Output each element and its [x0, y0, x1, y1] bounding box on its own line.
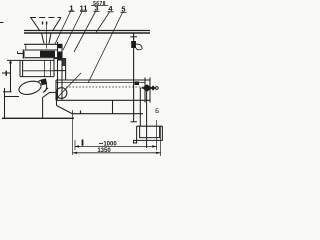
tube left end	[55, 80, 57, 100]
svg-text:5678: 5678	[93, 1, 106, 7]
hopper throat bottom	[24, 43, 62, 45]
drive mid shelf	[54, 70, 66, 72]
gearbox inner partition	[44, 60, 46, 76]
dimension 1350 arrow left	[73, 152, 78, 154]
hopper top dashed line	[30, 17, 61, 19]
shaft end centerline	[140, 87, 159, 89]
hopper throat right	[49, 33, 51, 44]
pedestal top	[50, 91, 57, 93]
hopper throat left	[42, 33, 45, 44]
dim start tick	[82, 140, 84, 146]
tube top inner	[56, 81, 145, 83]
pedestal right wall	[56, 92, 58, 105]
flange inner arc	[38, 81, 47, 92]
second hanger rod	[139, 88, 141, 126]
left dimension top arrow	[9, 61, 12, 64]
extension line left outer	[72, 110, 74, 155]
hopper left wall	[31, 18, 40, 32]
leader line 4	[96, 12, 110, 33]
shaft filled section	[40, 51, 55, 57]
dimension 1000 arrow right	[152, 145, 157, 147]
platform bottom line	[24, 32, 150, 34]
shaft bottom line	[25, 57, 57, 59]
rail under tube	[73, 113, 143, 115]
gate rod	[133, 33, 135, 122]
pedestal chamfer	[43, 92, 50, 97]
rail tick	[80, 111, 82, 115]
gearbox left outer	[19, 60, 21, 77]
pedestal brace diagonal	[57, 106, 73, 115]
gearbox bottom	[20, 76, 54, 78]
base line left	[2, 117, 74, 119]
extension line left inner	[74, 140, 76, 150]
left support column	[4, 88, 6, 118]
shaft top line	[25, 49, 57, 51]
flange stub line	[43, 88, 48, 93]
bracket inner	[140, 126, 160, 137]
dimension line 1000	[75, 145, 157, 147]
shaft stem tick	[17, 51, 19, 54]
shaft T head stem	[17, 53, 24, 55]
dimension 1000 arrow left	[75, 145, 80, 147]
coupling vertical right	[61, 44, 63, 100]
hopper center line	[46, 23, 48, 49]
tube bottom	[56, 99, 150, 101]
gate rod top tick	[130, 36, 137, 38]
shaft T head bar	[23, 50, 25, 59]
left edge dash	[0, 22, 4, 24]
gearbox inner partition b	[50, 60, 52, 76]
hopper tick b	[46, 22, 48, 25]
hopper right wall	[52, 18, 61, 32]
coupling vertical left	[57, 42, 59, 100]
svg-text:1350: 1350	[97, 148, 111, 154]
pedestal left wall	[42, 98, 44, 119]
bracket top edge	[137, 125, 163, 127]
gate handle blob	[131, 41, 136, 48]
left dimension mid tick	[2, 72, 11, 74]
platform top line	[24, 30, 150, 32]
leader line 11	[63, 12, 82, 51]
shaft end diamond large	[142, 84, 152, 91]
bracket left foot	[134, 140, 137, 143]
dimension 1350 arrow right	[156, 152, 161, 154]
gearbox inner shelf	[23, 70, 54, 72]
gearbox top	[7, 59, 54, 61]
extension line right inner	[156, 120, 158, 150]
leader line 3	[74, 12, 96, 53]
svg-text:1000: 1000	[103, 141, 117, 147]
bearing pointer diagonal	[56, 73, 81, 99]
shaft end block	[135, 82, 140, 86]
tube center dashed line	[66, 86, 143, 88]
left support horizontal	[5, 96, 19, 98]
left dimension bottom tick	[3, 91, 12, 93]
drive column right	[65, 58, 67, 80]
right hanger rod	[146, 90, 148, 148]
gearbox left inner	[22, 60, 24, 77]
svg-text:Б: Б	[155, 108, 159, 115]
hopper tick a	[42, 22, 44, 25]
left dimension mid arrow	[5, 71, 7, 76]
shaft end diamond small	[151, 85, 156, 90]
tube top outer	[56, 79, 150, 81]
left dimension vertical	[10, 61, 12, 93]
bearing circle	[56, 88, 67, 99]
tube right inner vertical	[144, 78, 146, 103]
bracket outer	[137, 126, 163, 140]
gate rod foot	[131, 121, 138, 123]
flange dark lug	[40, 78, 47, 85]
drive hatch block	[62, 59, 65, 67]
coupling black lower	[57, 52, 62, 61]
extension line right outer	[160, 126, 162, 156]
shaft left riser	[25, 44, 27, 50]
gate handle hook	[136, 44, 142, 50]
drive upper shelf	[54, 58, 66, 60]
shaft end circle	[155, 87, 158, 90]
leader line 5	[88, 13, 123, 84]
dimension line 1350	[73, 152, 161, 154]
leader line 1	[55, 12, 71, 45]
rail support vertical	[112, 100, 114, 113]
tiny title underline	[91, 5, 108, 7]
tube right end vertical	[149, 78, 151, 103]
coupling black upper	[57, 44, 62, 48]
gearbox right	[53, 56, 55, 77]
flange ellipse	[18, 79, 43, 96]
